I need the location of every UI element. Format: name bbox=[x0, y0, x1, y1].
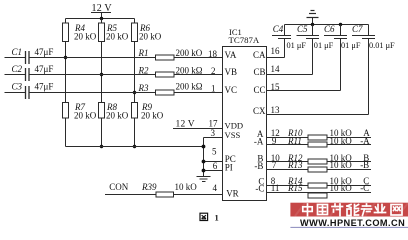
node rail-column2 junction bbox=[100, 145, 103, 148]
svg-text:3: 3 bbox=[211, 128, 216, 138]
wire column1 upper bbox=[65, 19, 67, 24]
svg-text:200 kΩ: 200 kΩ bbox=[176, 81, 203, 91]
svg-text:11: 11 bbox=[271, 183, 280, 193]
resistor R11 bbox=[308, 142, 327, 147]
watermark bottom line bbox=[290, 226, 408, 228]
svg-text:7: 7 bbox=[272, 160, 277, 170]
node row1-column1 junction bbox=[64, 56, 67, 59]
产 bbox=[362, 204, 372, 216]
svg-text:TC787A: TC787A bbox=[229, 35, 260, 45]
svg-text:20 kO: 20 kO bbox=[74, 111, 97, 121]
pin 5 label bbox=[212, 147, 217, 157]
wire row2 bbox=[29, 74, 222, 76]
svg-text:-C: -C bbox=[255, 184, 264, 194]
svg-text:1: 1 bbox=[215, 213, 219, 223]
caption 图 1 bbox=[200, 213, 208, 220]
wire column2 mid bbox=[101, 42, 103, 103]
svg-text:20 kO: 20 kO bbox=[139, 32, 162, 42]
wire top rail bbox=[66, 18, 135, 20]
svg-text:VB: VB bbox=[225, 67, 238, 77]
wire column2 lower bbox=[101, 118, 103, 147]
svg-text:16: 16 bbox=[271, 46, 281, 56]
resistor R12 bbox=[308, 159, 327, 164]
svg-text:PI: PI bbox=[225, 163, 233, 173]
svg-text:R2: R2 bbox=[138, 65, 149, 75]
svg-text:VSS: VSS bbox=[225, 130, 241, 140]
wire output C pin 8 bbox=[271, 176, 370, 186]
svg-text:01 μF: 01 μF bbox=[341, 41, 361, 50]
svg-text:18: 18 bbox=[208, 49, 218, 59]
resistor R3 bbox=[156, 90, 175, 95]
wire 12V top underline bbox=[91, 12, 111, 14]
resistor R7 bbox=[63, 103, 69, 119]
svg-text:-A: -A bbox=[254, 137, 264, 147]
svg-text:01 μF: 01 μF bbox=[314, 41, 334, 50]
ground below ladder bbox=[197, 176, 211, 178]
resistor R8 bbox=[99, 103, 105, 119]
wire top right rail bbox=[285, 24, 369, 26]
svg-text:200 kO: 200 kO bbox=[176, 48, 203, 58]
wire VDD pin 17 bbox=[173, 128, 223, 130]
svg-text:10 kO: 10 kO bbox=[175, 182, 198, 192]
wire column1 mid bbox=[65, 42, 67, 103]
resistor R5 bbox=[99, 23, 105, 42]
wire CX pin 13 bbox=[271, 105, 281, 115]
resistor R9 bbox=[132, 103, 138, 119]
node PC-ladder junction bbox=[202, 160, 206, 164]
svg-text:VC: VC bbox=[225, 85, 238, 95]
node row2-column2 junction bbox=[100, 73, 103, 76]
svg-text:C1: C1 bbox=[12, 47, 23, 57]
resistor R14 bbox=[308, 183, 327, 188]
ground top right bbox=[307, 17, 319, 19]
svg-text:10 kO: 10 kO bbox=[330, 160, 353, 170]
op-amp U1 IC box TC787A bbox=[223, 47, 267, 201]
svg-text:20 kO: 20 kO bbox=[74, 32, 97, 42]
svg-text:-B: -B bbox=[360, 160, 369, 170]
capacitor C7 bbox=[352, 24, 363, 34]
svg-text:CB: CB bbox=[253, 67, 265, 77]
中 bbox=[303, 204, 312, 216]
svg-text:VA: VA bbox=[225, 50, 237, 60]
svg-text:200 kΩ: 200 kΩ bbox=[176, 65, 203, 75]
wire CB pin 14 bbox=[271, 64, 281, 74]
svg-text:C5: C5 bbox=[297, 24, 308, 34]
svg-text:CX: CX bbox=[253, 106, 266, 116]
svg-text:C3: C3 bbox=[12, 82, 23, 92]
node PI-ladder junction bbox=[202, 169, 206, 173]
wire CC pin 15 bbox=[271, 82, 281, 92]
网 bbox=[391, 205, 402, 216]
wire VR pin 4 bbox=[105, 194, 156, 196]
wire column3 mid bbox=[134, 42, 136, 103]
svg-text:5: 5 bbox=[212, 147, 217, 157]
node CON label bbox=[109, 182, 129, 192]
svg-text:47μF: 47μF bbox=[35, 64, 54, 74]
wire column3 upper bbox=[134, 19, 136, 24]
svg-text:47μF: 47μF bbox=[35, 82, 54, 92]
svg-text:10 kO: 10 kO bbox=[330, 183, 353, 193]
resistor R1 bbox=[156, 55, 175, 60]
supply 12V bottom label bbox=[176, 119, 219, 130]
supply 12V top label bbox=[92, 3, 113, 14]
capacitor C3 bbox=[12, 82, 54, 92]
resistor R10 bbox=[308, 135, 327, 140]
svg-text:6: 6 bbox=[213, 161, 218, 171]
svg-text:0.01 μF: 0.01 μF bbox=[369, 41, 395, 50]
node rail-ladder junction bbox=[202, 145, 206, 149]
svg-text:C4: C4 bbox=[273, 24, 284, 34]
svg-text:13: 13 bbox=[271, 105, 281, 115]
wire PI pin bbox=[204, 170, 223, 172]
wire output A pin 12 bbox=[271, 128, 371, 138]
svg-text:-C: -C bbox=[360, 183, 369, 193]
svg-text:R39: R39 bbox=[141, 182, 157, 192]
svg-text:R13: R13 bbox=[287, 160, 303, 170]
svg-text:R15: R15 bbox=[287, 183, 303, 193]
svg-text:R3: R3 bbox=[138, 83, 149, 93]
wire VSS ladder vertical bbox=[203, 138, 205, 177]
node rail-column3 junction bbox=[133, 145, 136, 148]
watermark Chinese characters 中国节能产业网 bbox=[303, 204, 402, 216]
svg-text:14: 14 bbox=[271, 64, 281, 74]
resistor R39 bbox=[156, 192, 174, 197]
wire row3 bbox=[29, 92, 222, 94]
wire VSS pin 3 bbox=[211, 128, 216, 138]
node 12V-rail junction bbox=[100, 17, 103, 20]
svg-text:R1: R1 bbox=[138, 48, 149, 58]
capacitor C2 bbox=[12, 64, 54, 74]
svg-text:20 kO: 20 kO bbox=[106, 32, 129, 42]
能 bbox=[347, 205, 359, 216]
svg-text:VR: VR bbox=[226, 188, 239, 198]
svg-text:WWW.HPNET.COM.CN: WWW.HPNET.COM.CN bbox=[300, 218, 405, 228]
国 bbox=[318, 205, 328, 215]
svg-text:CC: CC bbox=[253, 85, 265, 95]
resistor R13 bbox=[308, 167, 327, 172]
svg-text:4: 4 bbox=[213, 183, 218, 193]
svg-text:C6: C6 bbox=[324, 24, 335, 34]
wire 12V stub to top rail bbox=[101, 13, 103, 19]
watermark red band bbox=[290, 203, 408, 217]
node row3-column3 junction bbox=[133, 91, 136, 94]
svg-text:01 μF: 01 μF bbox=[287, 41, 307, 50]
node C6 junction bbox=[339, 23, 342, 26]
svg-text:20 kO: 20 kO bbox=[141, 111, 164, 121]
svg-text:C7: C7 bbox=[352, 24, 363, 34]
wire row1 bbox=[29, 57, 222, 59]
resistor R2 bbox=[156, 72, 175, 77]
capacitor C5 bbox=[297, 24, 308, 34]
svg-text:20 kO: 20 kO bbox=[106, 111, 129, 121]
resistor R6 bbox=[132, 23, 138, 42]
wire bottom rail bbox=[66, 146, 204, 148]
svg-text:CA: CA bbox=[253, 50, 266, 60]
wire output -B pin 7 bbox=[272, 160, 369, 170]
wire output -C pin 11 bbox=[271, 183, 370, 193]
capacitor C1 bbox=[12, 47, 54, 57]
wire column3 lower bbox=[134, 118, 136, 147]
wire CA pin 16 bbox=[271, 46, 281, 56]
svg-text:CON: CON bbox=[109, 182, 129, 192]
capacitor C4 bbox=[273, 24, 284, 34]
svg-text:47μF: 47μF bbox=[35, 47, 54, 57]
svg-text:VDD: VDD bbox=[225, 121, 244, 131]
wire column1 lower bbox=[65, 118, 67, 147]
wire column2 upper bbox=[101, 19, 103, 24]
wire PC pin 6 bbox=[204, 161, 223, 163]
svg-text:1: 1 bbox=[211, 84, 216, 94]
svg-text:-B: -B bbox=[254, 161, 263, 171]
wire output -A pin 9 bbox=[272, 136, 370, 146]
wire output B pin 10 bbox=[271, 153, 370, 163]
node ground-C5 junction bbox=[311, 23, 314, 26]
节 bbox=[332, 204, 343, 216]
resistor R15 bbox=[308, 193, 327, 198]
业 bbox=[375, 205, 386, 213]
svg-text:C2: C2 bbox=[12, 64, 23, 74]
resistor R4 bbox=[63, 23, 69, 42]
svg-text:2: 2 bbox=[211, 66, 216, 76]
capacitor C6 bbox=[324, 24, 335, 34]
